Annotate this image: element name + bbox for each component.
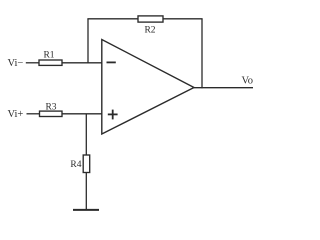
svg-text:Vi−: Vi− <box>8 58 24 69</box>
wire: feedback vertical left (x=88) <box>87 19 89 64</box>
svg-text:Vi+: Vi+ <box>8 109 24 120</box>
svg-text:R4: R4 <box>70 160 81 170</box>
svg-text:R1: R1 <box>43 51 54 61</box>
wire: vertical down to R4 <box>85 114 87 156</box>
svg-text:R3: R3 <box>45 102 56 112</box>
wire: R4 to ground <box>85 173 87 211</box>
wire: Vi+ lead to R3 <box>27 113 40 115</box>
op-amp U1 inverting pin marker (-) <box>107 61 116 63</box>
wire: R3 to non-inverting input node <box>62 113 102 115</box>
resistor R4 <box>83 155 90 173</box>
ground <box>73 209 99 211</box>
svg-text:R2: R2 <box>144 25 155 35</box>
wire: feedback top left segment to R2 <box>87 18 138 20</box>
resistor R2 <box>138 16 163 22</box>
wire: feedback top right segment from R2 <box>163 18 203 20</box>
wire: Vi- lead to R1 <box>26 62 40 64</box>
resistor R3 <box>40 111 63 116</box>
resistor R1 <box>39 60 62 65</box>
op-amp U1 non-inverting pin marker (+) <box>108 110 118 120</box>
svg-text:Vo: Vo <box>242 75 253 86</box>
wire: R1 to inverting input node <box>62 62 102 64</box>
wire: output from op-amp apex to Vo <box>194 87 254 89</box>
op-amp U1 <box>102 40 194 135</box>
wire: feedback vertical right down to output node <box>201 19 203 89</box>
